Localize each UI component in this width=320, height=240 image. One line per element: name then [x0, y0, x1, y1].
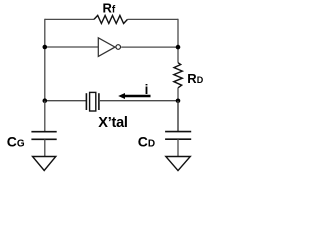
ground CD [166, 157, 191, 171]
svg-text:i: i [145, 82, 149, 97]
crystal X'tal box [90, 92, 96, 111]
svg-text:CD: CD [138, 134, 155, 150]
current arrow i [118, 93, 150, 99]
capacitor CD top plate [165, 131, 191, 133]
crystal X'tal right electrode [98, 93, 100, 110]
wire top horizontal left segment [45, 18, 94, 20]
junction node inverter output [176, 45, 181, 50]
resistor Rf [94, 15, 128, 23]
junction node crystal right [176, 99, 181, 104]
wire inverter input [45, 46, 99, 48]
svg-text:Rf: Rf [103, 0, 116, 15]
capacitor CG bottom plate [31, 138, 56, 140]
crystal X'tal left electrode [85, 93, 87, 110]
svg-text:X’tal: X’tal [98, 115, 127, 131]
wire CG cap lead [44, 101, 46, 132]
ground CG [33, 157, 56, 171]
wire crystal row right [99, 100, 178, 102]
wire right vertical upper [177, 19, 179, 63]
wire right vertical lower [177, 88, 179, 132]
resistor RD [174, 63, 183, 88]
wire CD cap lead [177, 101, 179, 132]
svg-text:RD: RD [187, 71, 203, 86]
inverter output bubble [116, 45, 121, 50]
svg-text:CG: CG [7, 134, 25, 150]
wire left vertical [44, 19, 46, 101]
junction node crystal left [43, 98, 48, 103]
capacitor CG top plate [31, 131, 56, 133]
wire CD ground lead [177, 139, 179, 156]
wire inverter output [121, 46, 178, 48]
capacitor CD bottom plate [165, 138, 191, 140]
wire top horizontal right segment [128, 18, 179, 20]
junction node inverter input [43, 45, 48, 50]
op-amp inverter U1 triangle [98, 38, 115, 57]
wire crystal row left [45, 100, 87, 102]
wire CG ground lead [44, 139, 46, 156]
